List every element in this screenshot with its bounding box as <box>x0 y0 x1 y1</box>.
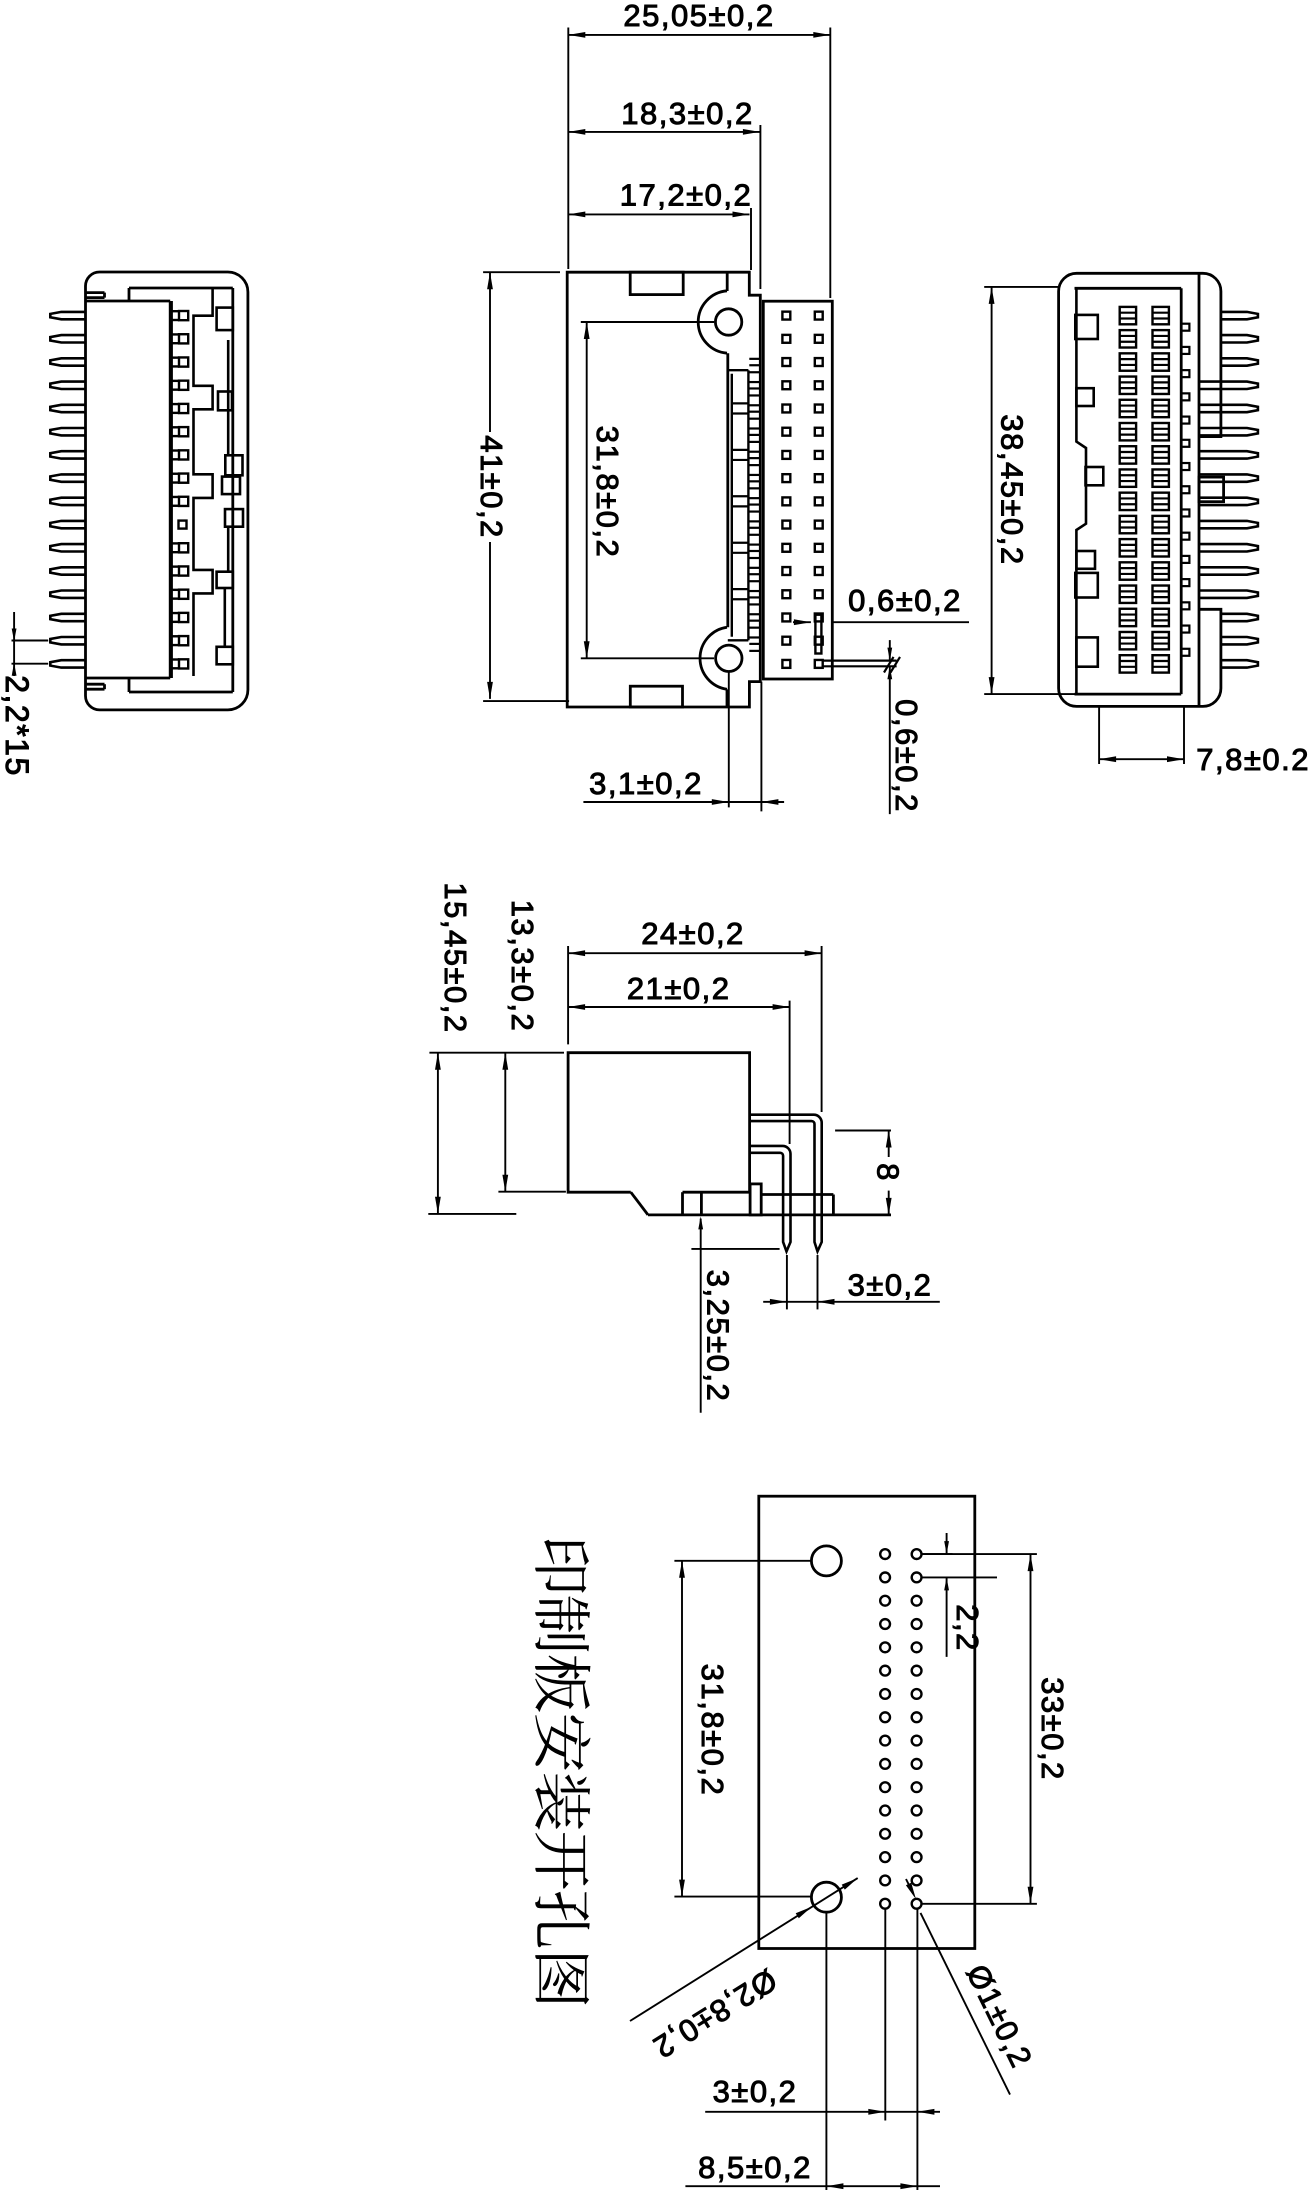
view3 contact slot colA row 14 <box>1120 609 1136 626</box>
view1 pin 5 (left blade) <box>50 405 85 412</box>
view5 pin hole row 16 col2 <box>912 1899 922 1909</box>
svg-text:0,6±0,2: 0,6±0,2 <box>889 699 924 813</box>
view1 pin 14 (left blade) <box>50 614 85 621</box>
svg-text:41±0,2: 41±0,2 <box>474 435 509 539</box>
view5 mounting hole top (2.8mm) <box>811 1546 841 1576</box>
view1 latch detail b <box>218 392 232 411</box>
view5 pin hole row 3 col1 <box>880 1596 890 1606</box>
view1 pin 12 (left blade) <box>50 567 85 574</box>
view5 pin hole row 1 col1 <box>880 1549 890 1559</box>
view2 bottom ear hole <box>716 645 742 671</box>
svg-text:33±0,2: 33±0,2 <box>1035 1677 1070 1781</box>
view5 pin hole row 14 col1 <box>880 1852 890 1862</box>
view3 contact slot colA row 16 <box>1120 655 1136 672</box>
dim 8 dimension line upper <box>888 1131 890 1158</box>
view3 contact slot colB row 5 <box>1153 400 1169 417</box>
view5 pin hole row 10 col1 <box>880 1759 890 1769</box>
svg-text:0,6±0,2: 0,6±0,2 <box>848 583 962 618</box>
view3 contact slot colB row 12 <box>1153 562 1169 579</box>
dim 8 dimension line lower <box>888 1191 890 1215</box>
view2 terminal square row 8 col1 <box>782 474 790 482</box>
svg-text:38,45±0,2: 38,45±0,2 <box>995 414 1030 565</box>
view1 latch detail a <box>217 308 233 331</box>
dim 33 extension top <box>921 1553 1037 1555</box>
view5 pin hole row 11 col2 <box>912 1782 922 1792</box>
view5 pin hole row 16 col1 <box>880 1899 890 1909</box>
view4 board line left segment <box>428 1213 516 1215</box>
view5 pin hole row 3 col2 <box>912 1596 922 1606</box>
view3 pin 3 (right blade) <box>1221 358 1258 365</box>
view: side view with right-angle pins - body <box>568 1053 750 1193</box>
caption: 印制板安装开孔图 (PCB mounting hole drawing) <box>535 1540 590 2005</box>
view1 top step <box>128 288 131 301</box>
view5 pin hole row 9 col2 <box>912 1736 922 1746</box>
dim 2,2 (view5) dimension line lower <box>946 1577 948 1657</box>
view2 top ear riser <box>726 273 729 291</box>
view3 contact slot colA row 3 <box>1120 353 1136 370</box>
view2 bottom ear riser <box>726 689 729 707</box>
view3 contact slot colA row 2 <box>1120 330 1136 347</box>
view3 pin 12 (right blade) <box>1199 567 1258 574</box>
view3 contact slot colB row 4 <box>1153 377 1169 394</box>
dim 38,45 extension top <box>984 286 1060 288</box>
dim 8,5 dimension line <box>685 2185 940 2187</box>
leader diameter 1 line <box>906 1879 913 1894</box>
view3 keying spine left <box>1076 288 1086 694</box>
dim 3,1 extension right <box>760 682 762 812</box>
view1 contact cavity 6 <box>179 427 188 436</box>
view2 terminal square row 5 col2 <box>815 405 823 413</box>
view3 contact slot colB row 11 <box>1153 539 1169 556</box>
dim 24 extension right <box>821 946 823 1112</box>
svg-text:7,8±0.2: 7,8±0.2 <box>1196 742 1308 777</box>
view5 pin hole row 8 col1 <box>880 1712 890 1722</box>
dim 31,8 label (rotated) <box>590 420 624 565</box>
view4 foot tab right edge <box>700 1192 703 1215</box>
view2 terminal square row 11 col1 <box>782 544 790 552</box>
view3 pin 16 (right blade) <box>1221 660 1258 667</box>
view2 terminal square row 7 col1 <box>782 451 790 459</box>
view1 pin 7 (left blade) <box>50 451 85 458</box>
dim 31,8 extension bottom <box>581 657 714 659</box>
view3 contact slot colA row 15 <box>1120 632 1136 649</box>
view2 terminal square row 12 col2 <box>815 567 823 575</box>
view2 terminal square row 11 col2 <box>815 544 823 552</box>
view3 contact slot colA row 8 <box>1120 469 1136 486</box>
dim 2,2 pitch ticks (view1) <box>12 640 49 642</box>
view3 contact slot colB row 10 <box>1153 516 1169 533</box>
view1 latch detail c <box>225 455 242 475</box>
view3 contact slot colA row 6 <box>1120 423 1136 440</box>
view3 key bump 6 <box>1076 637 1097 666</box>
view2 terminal square row 1 col2 <box>815 312 823 320</box>
view3 pin 1 (right blade) <box>1221 312 1258 319</box>
view: connector right side view - outer shell <box>1059 273 1221 706</box>
view3 contact slot colA row 11 <box>1120 539 1136 556</box>
svg-text:17,2±0,2: 17,2±0,2 <box>620 177 752 212</box>
view1 pin 10 (left blade) <box>50 521 85 528</box>
view1 bottom step <box>128 678 131 692</box>
view3 pin 13 (right blade) <box>1199 591 1258 598</box>
view1 contact cavity 7 <box>179 450 188 459</box>
dim 18,3 dimension line <box>568 131 760 133</box>
svg-text:2,2: 2,2 <box>950 1604 985 1652</box>
dim 2,2 (view5) dimension line upper <box>946 1533 948 1554</box>
view2 terminal square row 16 col2 <box>815 660 823 668</box>
view3 contact slot colB row 1 <box>1153 307 1169 324</box>
dim 31,8 dimension line <box>586 322 588 658</box>
dim 3 dimension line <box>763 1301 940 1303</box>
dim 18,3 extension right <box>759 125 761 289</box>
view1 contact cavity 4 <box>179 381 188 390</box>
view2 terminal square row 1 col1 <box>782 312 790 320</box>
view2 terminal square row 9 col1 <box>782 497 790 505</box>
view1 pin 8 (left blade) <box>50 474 85 481</box>
view3 contact slot colA row 9 <box>1120 493 1136 510</box>
view: connector front view - body outline <box>567 272 760 707</box>
view1 pin 16 (left blade) <box>50 660 85 667</box>
view5 pin hole row 7 col1 <box>880 1689 890 1699</box>
view2 terminal square row 4 col1 <box>782 381 790 389</box>
view2 terminal square row 13 col2 <box>815 590 823 598</box>
dim 0,6 tail dimension line upper <box>889 640 891 661</box>
view5 hole col1 extension down <box>884 1909 886 2121</box>
svg-text:24±0,2: 24±0,2 <box>641 916 745 951</box>
dim 3,1 dimension line <box>583 801 784 803</box>
view5 pin hole row 15 col1 <box>880 1876 890 1886</box>
dim 17,2 extension right <box>750 208 752 270</box>
view3 pin 10 (right blade) <box>1199 521 1258 528</box>
dim 17,2 dimension line <box>568 213 749 215</box>
view2 terminal square row 10 col1 <box>782 521 790 529</box>
svg-text:8,5±0,2: 8,5±0,2 <box>698 2150 812 2185</box>
view1 inner shroud right wall <box>231 288 234 692</box>
view5 pin hole row 14 col2 <box>912 1852 922 1862</box>
view3 contact slot colA row 4 <box>1120 377 1136 394</box>
dim 7,8 dimension line <box>1099 758 1184 760</box>
svg-text:13,3±0,2: 13,3±0,2 <box>505 900 540 1032</box>
view4 pin 1 bent (upper) <box>750 1115 822 1252</box>
dim 31,8 (view5) dimension line <box>681 1561 683 1897</box>
view1 pin 6 (left blade) <box>50 428 85 435</box>
view2 comb rungs left ladder <box>732 402 749 404</box>
view3 pin 11 (right blade) <box>1199 544 1258 551</box>
dim 2,2 (view5) tick row1 <box>921 1553 952 1555</box>
view1 latch connector line b <box>227 527 230 572</box>
view5 hole col2 extension down <box>916 1909 918 2190</box>
svg-text:3,25±0,2: 3,25±0,2 <box>701 1270 736 1402</box>
dim 25,05 extension left <box>567 28 569 270</box>
dim 21 extension right <box>789 1001 791 1144</box>
dim 31,8 (view5) extension top <box>674 1560 812 1562</box>
view2 terminal square row 16 col1 <box>782 660 790 668</box>
view2 bottom polarizing tab <box>630 686 682 707</box>
view5 pin hole row 10 col2 <box>912 1759 922 1769</box>
view3 contact slot colA row 7 <box>1120 446 1136 463</box>
view2 terminal square row 2 col2 <box>815 335 823 343</box>
svg-text:15,45±0,2: 15,45±0,2 <box>438 882 473 1033</box>
dim 0,6 tail dimension line lower <box>889 666 891 814</box>
dim 15,45 extension top <box>429 1052 564 1054</box>
view1 pin 15 (left blade) <box>50 637 85 644</box>
svg-text:31,8±0,2: 31,8±0,2 <box>695 1664 730 1796</box>
dim 2,2 (view5) tick row2 <box>921 1576 997 1578</box>
view4 standoff block right <box>832 1195 835 1215</box>
view2 blade comb wall A <box>726 353 729 627</box>
view5 pin hole row 12 col2 <box>912 1806 922 1816</box>
dim 21 dimension line <box>568 1006 790 1008</box>
view3 contact slot colB row 13 <box>1153 586 1169 603</box>
dim 38,45 label (rotated) <box>994 400 1030 580</box>
view3 pin 15 (right blade) <box>1221 637 1258 644</box>
view1 contact cavity 9 <box>179 497 188 506</box>
dim 38,45 extension bottom <box>984 693 1076 695</box>
view5 pin hole row 11 col1 <box>880 1782 890 1792</box>
view5 pin hole row 6 col2 <box>912 1666 922 1676</box>
dim 24 dimension line <box>568 952 822 954</box>
view5 pin hole row 4 col1 <box>880 1619 890 1629</box>
view5 mounting hole bottom (2.8mm) <box>811 1882 841 1912</box>
view2 blade comb wall B <box>731 374 733 637</box>
view4 foot slant <box>631 1192 648 1215</box>
view2 terminal square row 7 col2 <box>815 451 823 459</box>
dim 25,05 dimension line <box>568 34 830 36</box>
view3 pin 6 (right blade) <box>1199 428 1258 435</box>
svg-text:31,8±0,2: 31,8±0,2 <box>590 426 625 558</box>
view5 pin hole row 9 col1 <box>880 1736 890 1746</box>
view5 pin hole row 5 col1 <box>880 1642 890 1652</box>
view3 mating face bottom edge <box>1075 693 1182 696</box>
view3 contact slot colB row 14 <box>1153 609 1169 626</box>
dim 25,05 extension right <box>829 28 831 299</box>
dim 3,25 tick <box>691 1248 779 1250</box>
view4 pin 2 bent (lower) <box>750 1146 790 1252</box>
view3 contact slot colB row 2 <box>1153 330 1169 347</box>
view3 key bump 2 <box>1076 388 1093 406</box>
svg-text:18,3±0,2: 18,3±0,2 <box>621 96 753 131</box>
view1 contact cavity 11 <box>179 543 188 552</box>
dim 2,2 pitch dimension line <box>13 612 15 676</box>
svg-text:8: 8 <box>871 1163 906 1182</box>
view4 mounting plane line <box>648 1214 891 1217</box>
view2 pin16 tail lines <box>823 659 897 661</box>
view2 top ear hole <box>715 309 741 335</box>
view5 pin hole row 1 col2 <box>912 1549 922 1559</box>
view5 pin hole row 2 col2 <box>912 1573 922 1583</box>
view1 contact cavity 14 <box>179 613 188 622</box>
view1 contact cavity 15 <box>179 636 188 645</box>
view2 top mounting ear <box>698 291 727 353</box>
view3 contact slot colA row 5 <box>1120 400 1136 417</box>
dim 7,8 extension right <box>1183 706 1185 764</box>
view3 contact slot colA row 12 <box>1120 562 1136 579</box>
dim 38,45 dimension line <box>991 287 993 694</box>
view4 foot tab left edge <box>681 1192 684 1215</box>
svg-text:25,05±0,2: 25,05±0,2 <box>623 0 774 33</box>
view2 terminal square row 8 col2 <box>815 474 823 482</box>
view3 pin 14 (right blade) <box>1221 614 1258 621</box>
view2 terminal square row 3 col1 <box>782 358 790 366</box>
view3 pin 5 (right blade) <box>1199 405 1258 412</box>
view1 contact cavity 13 <box>179 590 188 599</box>
view2 comb rungs right ladder <box>749 358 760 360</box>
dim 24/21 extension left <box>567 946 569 1044</box>
svg-text:2,2*15: 2,2*15 <box>0 675 35 777</box>
view2 terminal square row 4 col2 <box>815 381 823 389</box>
view3 contact slot colB row 7 <box>1153 446 1169 463</box>
dim 33 extension bottom <box>921 1903 1037 1905</box>
dim 7,8 extension left <box>1098 706 1100 764</box>
view2 terminal square row 3 col2 <box>815 358 823 366</box>
view3 mating face right wall with teeth <box>1180 288 1183 694</box>
dim 3,1 extension left <box>728 672 730 808</box>
view1 inner zigzag wall <box>194 288 213 676</box>
view3 contact slot colB row 16 <box>1153 655 1169 672</box>
svg-text:3,1±0,2: 3,1±0,2 <box>589 766 703 801</box>
view4 standoff block top <box>761 1193 833 1196</box>
view5 pin hole row 5 col2 <box>912 1642 922 1652</box>
view2 terminal square row 2 col1 <box>782 335 790 343</box>
view1 pin 2 (left blade) <box>50 335 85 342</box>
dim 41 dimension line <box>489 272 491 699</box>
dim 3 pin extension right <box>817 1255 819 1309</box>
view5 pin hole row 8 col2 <box>912 1712 922 1722</box>
view3 contact slot colB row 9 <box>1153 493 1169 510</box>
view1 contact cavity 16 <box>179 659 188 668</box>
view2 terminal square row 5 col1 <box>782 405 790 413</box>
dim 13,3 extension bottom <box>498 1191 566 1193</box>
view1 contact cavity 5 <box>179 404 188 413</box>
view2 terminal square row 14 col1 <box>782 614 790 622</box>
svg-text:21±0,2: 21±0,2 <box>627 971 731 1006</box>
view2 terminal field outline <box>763 301 832 679</box>
dim 31,8 extension top <box>581 321 714 323</box>
view1 contact cavity 1 <box>179 311 188 320</box>
view1 pin 13 (left blade) <box>50 591 85 598</box>
view3 key bump 3 <box>1086 467 1104 485</box>
dim 0,6 slot leader line <box>793 621 811 623</box>
view1 latch detail g <box>217 647 233 665</box>
view3 contact slot colA row 1 <box>1120 307 1136 324</box>
view5 pin hole row 15 col2 <box>912 1876 922 1886</box>
view3 contact slot colA row 10 <box>1120 516 1136 533</box>
view2 terminal square row 15 col2 <box>815 637 823 645</box>
view3 mating face top edge <box>1075 287 1182 290</box>
view1 pin block right edge (thick) <box>171 301 173 678</box>
view3 contact slot colB row 3 <box>1153 353 1169 370</box>
view3 key bump 4 <box>1076 551 1095 569</box>
view5 pin hole row 4 col2 <box>912 1619 922 1629</box>
view1 contact cavity 10 (small) <box>179 521 187 529</box>
view: connector left side view - outer housing <box>86 272 248 710</box>
view3 center latch block <box>1199 477 1224 502</box>
view3 key bump 1 <box>1075 315 1098 339</box>
view3 body right wall <box>1198 273 1201 706</box>
view3 pin 9 (right blade) <box>1199 498 1258 505</box>
view1 contact cavity 2 <box>179 334 188 343</box>
view3 key bump 5 <box>1075 573 1098 598</box>
view5 pin hole row 2 col1 <box>880 1573 890 1583</box>
view3 pin 7 (right blade) <box>1199 451 1258 458</box>
view1 pin 9 (left blade) <box>50 498 85 505</box>
view2 terminal square row 15 col1 <box>782 637 790 645</box>
view3 pin 8 (right blade) <box>1199 474 1258 481</box>
view2 terminal square row 12 col1 <box>782 567 790 575</box>
svg-text:3±0,2: 3±0,2 <box>848 1268 933 1303</box>
view4 support tab <box>750 1184 761 1215</box>
dim 41 extension top <box>483 271 560 273</box>
view2 bottom mounting ear <box>700 627 727 689</box>
view2 terminal square row 9 col2 <box>815 497 823 505</box>
dim 41 extension bottom <box>483 700 569 702</box>
view5 big hole extension down <box>825 1912 827 2190</box>
leader diameter 2,8 line <box>630 1878 858 2021</box>
svg-text:3±0,2: 3±0,2 <box>713 2074 798 2109</box>
dim 13,3 dimension line <box>504 1053 506 1192</box>
view2 comb top edge <box>728 369 749 371</box>
view1 pin 11 (left blade) <box>50 544 85 551</box>
view5 pin hole row 12 col1 <box>880 1806 890 1816</box>
view1 latch connector line c <box>224 588 227 647</box>
view3 contact slot colB row 8 <box>1153 469 1169 486</box>
view5 pin hole row 7 col2 <box>912 1689 922 1699</box>
view3 contact slot colB row 15 <box>1153 632 1169 649</box>
view1 latch detail f <box>217 572 233 588</box>
dim 3,25 dimension line <box>700 1219 702 1413</box>
dim 41 label (rotated) <box>474 432 508 542</box>
view2 terminal square row 13 col1 <box>782 590 790 598</box>
dim 33 dimension line <box>1030 1554 1032 1904</box>
view2 terminal square row 6 col1 <box>782 428 790 436</box>
view1 shroud top edge <box>129 287 233 290</box>
view1 pin 4 (left blade) <box>50 382 85 389</box>
view1 contact cavity 3 <box>179 357 188 366</box>
view1 contact cavity 12 <box>179 566 188 575</box>
view1 contact cavity 8 <box>179 474 188 483</box>
view2 blade comb wall C <box>747 370 749 640</box>
view1 latch detail d <box>222 477 240 495</box>
view1 latch detail e <box>225 509 243 527</box>
view2 terminal square row 14 col2 <box>815 614 823 622</box>
dim 8 tick top <box>835 1130 891 1132</box>
view5 pin hole row 13 col1 <box>880 1829 890 1839</box>
view5 pin hole row 13 col2 <box>912 1829 922 1839</box>
view2 terminal square row 6 col2 <box>815 428 823 436</box>
view2 pin16 tail break marks <box>884 657 894 673</box>
view1 pin 3 (left blade) <box>50 358 85 365</box>
view1 pin 1 (left blade) <box>50 312 85 319</box>
view1 pin base block <box>86 300 171 303</box>
view2 top polarizing tab <box>630 272 683 294</box>
dim 3 (view5) dimension line <box>705 2111 940 2113</box>
view: PCB mounting hole plan - board outline <box>759 1496 975 1948</box>
view1 latch connector line a <box>227 340 230 455</box>
view2 comb bottom edge <box>728 639 749 641</box>
dim 15,45 dimension line <box>437 1053 439 1214</box>
dim 31,8 (view5) extension bottom <box>674 1896 812 1898</box>
view3 contact slot colA row 13 <box>1120 586 1136 603</box>
view2 0,6 keying slot around col2 rows 14-15 <box>815 615 821 654</box>
view2 terminal square row 10 col2 <box>815 521 823 529</box>
dim 3 pin extension left <box>786 1255 788 1309</box>
view3 pin 4 (right blade) <box>1199 382 1258 389</box>
view1 shroud bottom edge <box>129 691 233 694</box>
view3 contact slot colB row 6 <box>1153 423 1169 440</box>
view5 pin hole row 6 col1 <box>880 1666 890 1676</box>
view3 pin 2 (right blade) <box>1221 335 1258 342</box>
